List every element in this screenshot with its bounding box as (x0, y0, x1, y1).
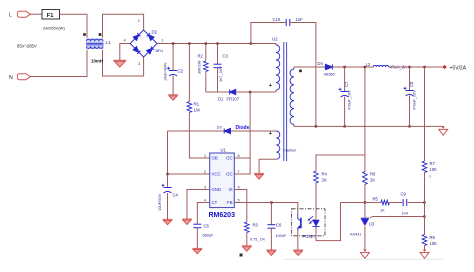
svg-text:1M: 1M (194, 108, 200, 113)
connector L (17, 11, 30, 17)
wire to R6 (364, 155, 366, 172)
svg-text:OC: OC (226, 172, 232, 177)
svg-text:U2: U2 (272, 37, 278, 42)
wire rail to R2 (205, 44, 207, 62)
svg-text:104: 104 (402, 212, 408, 216)
resistor R8 (422, 235, 427, 246)
inductor L1 top winding (87, 39, 104, 41)
inductor L1 bottom winding (87, 46, 104, 48)
resistor R5 (381, 200, 389, 205)
wire rail to R1 (188, 44, 190, 102)
wire opto emitter to ground (297, 230, 299, 250)
inductor L1 (86, 39, 104, 50)
ground C4 (163, 219, 173, 225)
inductor L1 core (86, 43, 104, 45)
svg-text:SB560: SB560 (324, 73, 335, 77)
svg-text:2: 2 (138, 19, 140, 23)
wire R8 to ground (424, 246, 426, 250)
junction C10 left (250, 42, 252, 44)
wire FB to C6 (270, 203, 272, 225)
wire comp right (408, 202, 425, 204)
diode D4 (325, 64, 332, 69)
wire +5V to R4 R6 (316, 67, 365, 171)
svg-text:0.75_1%: 0.75_1% (250, 238, 266, 242)
inductor L2 (373, 65, 388, 67)
wire secondary ground rail (294, 125, 443, 127)
ground opto (293, 250, 303, 256)
stray mark (240, 254, 243, 257)
diode D3 (224, 128, 230, 133)
wire C4 to ground (167, 193, 169, 219)
wire to pin OC8 (234, 157, 250, 159)
capacitor C9 (403, 199, 407, 206)
wire comp left (341, 202, 381, 204)
svg-text:Diode: Diode (236, 125, 250, 131)
svg-text:U1: U1 (221, 148, 227, 153)
svg-text:C2: C2 (178, 69, 184, 74)
svg-text:VCC: VCC (212, 172, 221, 177)
ground R8 secondary (420, 250, 429, 259)
capacitor C8 (404, 87, 414, 96)
optocoupler light arrows (307, 216, 314, 224)
ground R3 (242, 246, 252, 252)
wire bridge to ground (120, 44, 130, 61)
optocoupler LED (312, 220, 319, 226)
wire C7 to ground rail (344, 97, 346, 127)
svg-text:10K: 10K (430, 241, 438, 246)
ground C2 (168, 95, 178, 101)
wire +5V to R7 (424, 67, 426, 161)
wire rail to C10 (251, 23, 286, 44)
transformer U2 core (284, 42, 287, 161)
junction ref (423, 215, 425, 217)
svg-text:C9: C9 (401, 192, 407, 197)
ground bridge (113, 60, 126, 67)
junction C7 (343, 66, 345, 68)
resistor R4 (314, 171, 319, 183)
svg-text:3: 3 (138, 62, 140, 66)
svg-text:C10: C10 (273, 17, 281, 22)
svg-text:R4: R4 (322, 172, 328, 177)
capacitor C6 (267, 225, 275, 229)
optocoupler phototransistor (298, 214, 301, 231)
junction C6 (270, 201, 272, 203)
svg-text:470uF_10V: 470uF_10V (413, 90, 417, 110)
svg-text:F1: F1 (47, 13, 54, 19)
wire drain down (249, 92, 251, 158)
svg-text:7: 7 (238, 170, 240, 174)
wire aux to ground (259, 159, 276, 173)
wire to C7 (344, 67, 346, 91)
svg-text:C6: C6 (276, 223, 282, 228)
svg-text:10K: 10K (430, 167, 438, 172)
svg-text:100nF: 100nF (276, 234, 287, 238)
svg-text:10mH: 10mH (91, 59, 103, 64)
wire R6 to U3 (364, 185, 366, 218)
wire L2 to output (389, 66, 444, 68)
capacitor C4 (162, 184, 172, 193)
wire GND pin to ground (187, 190, 210, 219)
svg-text:1nF: 1nF (296, 17, 304, 22)
svg-text:4: 4 (124, 39, 126, 43)
svg-text:GND: GND (212, 187, 222, 192)
junction divider (423, 201, 425, 203)
wire snubber bottom (206, 91, 230, 93)
transformer U2 secondary winding (290, 69, 294, 125)
svg-text:IS: IS (229, 187, 233, 192)
svg-text:RM6203: RM6203 (209, 212, 236, 219)
svg-text:85V~265V: 85V~265V (17, 44, 37, 49)
wire rail to primary (275, 44, 277, 46)
junction C3 top (216, 42, 218, 44)
artifact line (284, 258, 443, 260)
svg-text:2: 2 (204, 170, 206, 174)
wire C3 bottom (217, 68, 219, 92)
inductor L1 phase dot right (99, 33, 102, 36)
inductor L1 phase dot left (83, 33, 86, 36)
svg-text:D2: D2 (152, 30, 158, 35)
diode D1 (230, 89, 236, 94)
wire VCC to pin2 (168, 173, 210, 175)
capacitor C2 (167, 67, 177, 76)
wire aux to D3 (231, 130, 277, 132)
svg-text:N: N (9, 75, 13, 81)
wire secondary to D4 (294, 67, 325, 69)
wire D4 to L2 (332, 66, 373, 68)
svg-text:L1: L1 (106, 40, 112, 46)
capacitor C3 (214, 64, 222, 68)
wire rail to C3 (217, 44, 219, 65)
bridge diode top-right (147, 33, 154, 40)
junction U3 cathode (364, 201, 366, 203)
junction drain (249, 91, 251, 93)
ground C6 (266, 250, 276, 256)
svg-text:10uF/50V: 10uF/50V (157, 193, 162, 211)
svg-text:1: 1 (204, 154, 206, 158)
svg-text:1K: 1K (380, 209, 385, 213)
shunt regulator U3 KA431 (361, 218, 369, 225)
ground IC (182, 219, 192, 225)
svg-text:C5: C5 (204, 224, 210, 229)
junction C2 top (172, 42, 174, 44)
svg-text:R1: R1 (194, 102, 200, 107)
U3 ref lead (370, 217, 425, 219)
svg-text:FR107: FR107 (227, 97, 240, 102)
resistor R1 (187, 102, 192, 113)
wire D3 to VCC node (168, 130, 225, 132)
connector N (17, 74, 30, 80)
junction C10 bottom (315, 125, 317, 127)
svg-text:C7: C7 (344, 81, 349, 87)
svg-text:FB: FB (227, 200, 233, 205)
junction C8 (408, 66, 410, 68)
wire C2 to ground (172, 76, 174, 95)
junction R1 top (188, 42, 190, 44)
node +5V output (443, 65, 447, 69)
wire primary bottom (275, 90, 277, 92)
junction VCC (166, 173, 168, 175)
junction R2 top (205, 42, 207, 44)
wire VCC vertical (167, 131, 169, 187)
svg-text:CT: CT (212, 200, 218, 205)
svg-text:2K: 2K (370, 178, 375, 183)
wire DC bus rail (157, 43, 276, 45)
junction C8 bottom (408, 125, 410, 127)
svg-text:C8: C8 (409, 81, 414, 87)
svg-text:2A/250V(W): 2A/250V(W) (43, 26, 65, 31)
wire IS to R3 (234, 190, 247, 223)
optocoupler PC817 box (292, 209, 326, 236)
svg-text:1: 1 (162, 39, 164, 43)
wire L1 to bridge top (103, 14, 144, 38)
wire to pin OC7 (234, 158, 250, 174)
svg-text:R5: R5 (373, 197, 379, 202)
svg-text:I: I (430, 174, 431, 179)
wire N to L1 (30, 50, 87, 77)
resistor R6 (363, 172, 368, 185)
svg-text:Trasfum: Trasfum (283, 149, 297, 153)
svg-text:L: L (9, 13, 12, 19)
wire L1 to bridge bottom (103, 50, 144, 76)
svg-text:+5V/2A: +5V/2A (450, 66, 467, 72)
wire to C8 (409, 67, 411, 90)
svg-text:PC817: PC817 (303, 234, 316, 239)
junction L2 (364, 66, 366, 68)
wire to C2 (172, 44, 174, 71)
wire L to fuse (30, 13, 42, 15)
wire fuse to L1 (60, 14, 88, 38)
svg-text:10uF/400V: 10uF/400V (163, 62, 167, 81)
wire U3 to ground (364, 226, 366, 249)
bridge diode bottom-right (147, 47, 154, 54)
capacitor C5 (193, 224, 201, 228)
svg-text:D1: D1 (218, 97, 224, 102)
svg-text:D4: D4 (318, 61, 324, 66)
wire R2 bottom (205, 72, 207, 93)
svg-text:8: 8 (238, 154, 240, 158)
wire C8 to ground rail (409, 96, 411, 127)
resistor R2 (204, 61, 209, 72)
svg-text:R7: R7 (430, 161, 436, 166)
wire comp mid (389, 202, 402, 204)
wire C10 to secondary ground (290, 23, 316, 127)
svg-text:4n7_1KV: 4n7_1KV (219, 66, 223, 82)
svg-text:BR1: BR1 (156, 48, 165, 53)
wire CT to C5 (197, 203, 209, 225)
transformer U2 aux winding (276, 131, 280, 159)
svg-text:R6: R6 (370, 172, 376, 177)
svg-text:680pF: 680pF (203, 234, 214, 238)
svg-text:2K: 2K (322, 178, 327, 183)
svg-text:OC: OC (226, 156, 232, 161)
wire R4 to opto LED (315, 183, 317, 220)
junction C7 bottom (343, 125, 345, 127)
svg-text:KA431: KA431 (350, 233, 361, 237)
ground aux (254, 173, 264, 179)
bridge diode top-left (133, 33, 140, 40)
resistor R3 (245, 222, 250, 233)
svg-text:R8: R8 (430, 235, 436, 240)
svg-text:C4: C4 (173, 193, 179, 198)
ground secondary rail (439, 126, 448, 135)
wire R7 to R8 (424, 173, 426, 235)
svg-text:470uF_16V: 470uF_16V (348, 90, 352, 110)
svg-text:C3: C3 (223, 54, 229, 59)
ground C5 (192, 248, 202, 254)
wire LED cathode to comp (316, 203, 341, 241)
svg-text:L2: L2 (366, 62, 371, 67)
wire C5 to ground (196, 228, 198, 248)
resistor R7 (422, 161, 427, 173)
wire FB to opto (234, 203, 298, 214)
fuse F1 (42, 10, 60, 20)
svg-text:U3: U3 (369, 222, 375, 227)
wire R1 to pin OB (189, 113, 209, 159)
wire D1 to primary (236, 91, 276, 93)
svg-text:D3: D3 (217, 126, 222, 130)
svg-text:30K/2W: 30K/2W (198, 60, 202, 74)
svg-text:R3: R3 (253, 223, 259, 228)
transformer U2 primary winding (276, 45, 280, 90)
bridge diode bottom-left (133, 47, 140, 54)
bridge D2 outline (130, 30, 157, 57)
transformer U2 secondary polarity dot (299, 70, 302, 73)
wire R3 to ground (246, 233, 248, 246)
ground U3 secondary (360, 250, 369, 259)
op-amp U1 RM6203 box (210, 153, 235, 208)
svg-text:OB: OB (212, 156, 218, 161)
junction R7 top (423, 66, 425, 68)
capacitor C10 (286, 19, 290, 26)
wire C6 to ground (270, 228, 272, 250)
capacitor C7 (339, 88, 349, 97)
svg-text:R2: R2 (198, 54, 204, 59)
